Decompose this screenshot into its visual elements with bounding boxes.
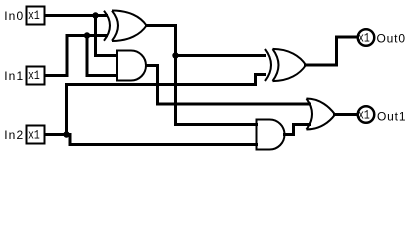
svg-text:x1: x1 bbox=[28, 68, 40, 83]
svg-text:Out1: Out1 bbox=[377, 110, 406, 124]
svg-text:Out0: Out0 bbox=[377, 32, 406, 46]
node XOR U1 output branch junction bbox=[172, 52, 178, 58]
and-gate U2 (In0 AND In1) bbox=[117, 51, 146, 81]
input pin In2 bbox=[27, 126, 45, 144]
wire XOR U3 output to pin Out0 bbox=[304, 37, 357, 65]
wire XOR U1 output branch to XOR U3 input 1 bbox=[176, 54, 267, 57]
wire XOR U1 output down to AND U4 input 1 bbox=[145, 26, 258, 125]
node In1 branch junction bbox=[84, 32, 90, 38]
wire AND U4 output to OR U5 input 2 bbox=[283, 125, 311, 135]
svg-text:In2: In2 bbox=[4, 128, 23, 142]
svg-text:In1: In1 bbox=[4, 69, 23, 83]
wire In0 branch down to AND U2 input 1 bbox=[94, 16, 118, 56]
wire In2 to AND U4 input 2 bbox=[44, 135, 258, 145]
or-gate U5 (drives Out1) bbox=[307, 99, 336, 130]
output pin Out1 bbox=[358, 106, 375, 123]
wire OR U5 output to pin Out1 bbox=[333, 113, 357, 116]
xor-gate U3 (sum XOR In2, drives Out0) bbox=[265, 49, 306, 81]
wire In1 branch down to AND U2 input 2 bbox=[86, 36, 119, 76]
svg-text:x1: x1 bbox=[358, 31, 370, 46]
xor-gate U1 (In0 XOR In1) bbox=[104, 11, 147, 42]
input pin In1 bbox=[27, 67, 45, 85]
svg-text:x1: x1 bbox=[358, 108, 370, 123]
wire In0 to XOR U1 input 1 bbox=[44, 14, 108, 17]
wire In2 branch up to XOR U3 input 2 bbox=[67, 75, 267, 137]
svg-text:x1: x1 bbox=[28, 127, 40, 142]
wire In1 up to XOR U1 input 2 bbox=[44, 36, 108, 76]
node In0 branch junction bbox=[92, 12, 98, 18]
input pin In0 bbox=[27, 7, 45, 25]
svg-text:x1: x1 bbox=[28, 8, 40, 23]
node In2 branch junction bbox=[63, 131, 69, 137]
svg-text:In0: In0 bbox=[4, 9, 23, 23]
and-gate U4 (xor AND In2) bbox=[257, 120, 285, 150]
wire AND U2 output to OR U5 input 1 bbox=[145, 66, 311, 105]
output pin Out0 bbox=[358, 29, 375, 46]
